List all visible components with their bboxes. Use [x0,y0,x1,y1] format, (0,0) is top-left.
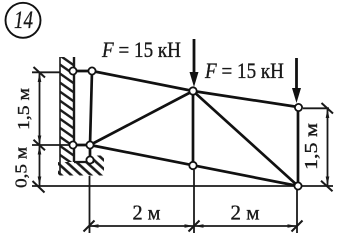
svg-text:F = 15 кН: F = 15 кН [101,37,181,62]
svg-text:F = 15 кН: F = 15 кН [204,58,284,83]
svg-text:1,5 м: 1,5 м [14,88,33,130]
svg-text:1,5 м: 1,5 м [301,123,321,170]
svg-text:14: 14 [14,7,33,34]
svg-text:0,5 м: 0,5 м [12,147,31,188]
svg-text:2 м: 2 м [133,201,161,225]
svg-text:2 м: 2 м [231,201,260,225]
